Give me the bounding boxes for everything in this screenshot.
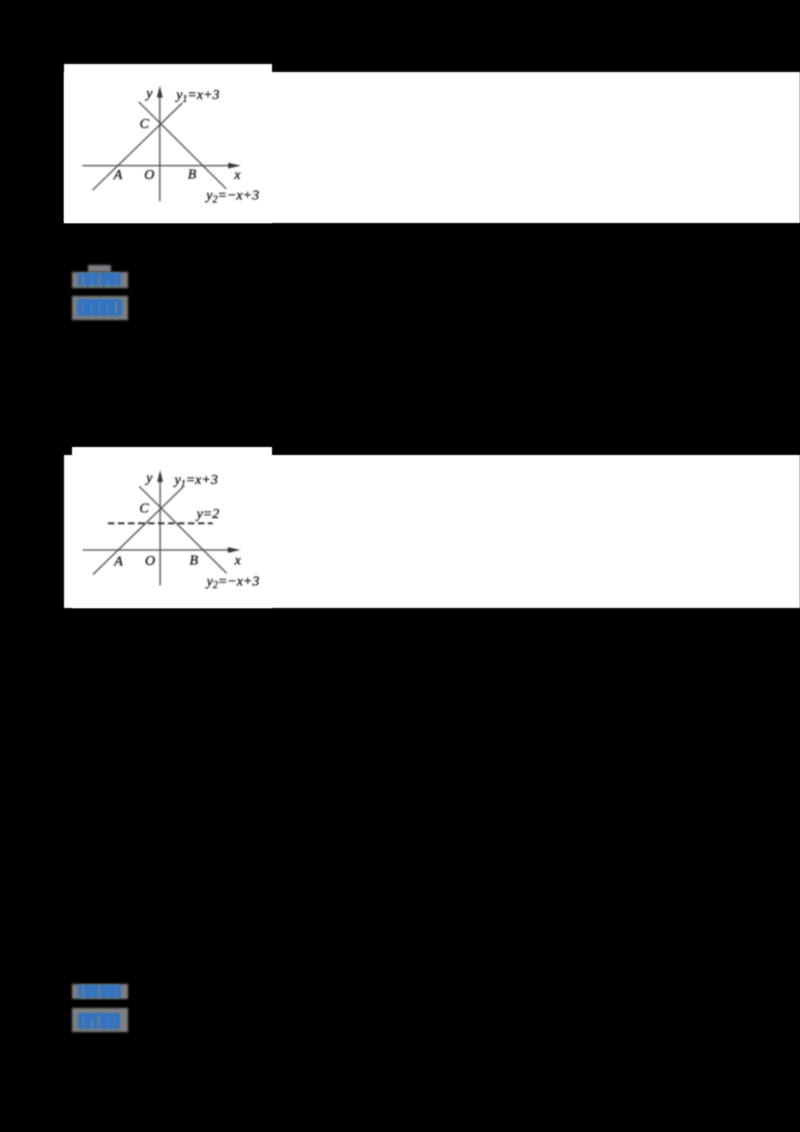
svg-text:x: x: [233, 168, 241, 183]
y-axis arrowhead (graph 2): [157, 470, 163, 482]
x-axis (graph 2): [83, 549, 233, 551]
svg-text:B: B: [188, 167, 197, 182]
svg-text:A: A: [113, 168, 123, 183]
analysis tag 4 gray box: [72, 1008, 128, 1032]
svg-text:y2=−x+3: y2=−x+3: [205, 574, 260, 591]
highlight bump above answer tag 1: [88, 265, 111, 272]
svg-text:B: B: [190, 554, 199, 569]
line y2=-x+3 (graph 2): [139, 486, 226, 573]
answer tag 3 blue text blob: [78, 985, 122, 998]
svg-text:y2=−x+3: y2=−x+3: [204, 189, 259, 206]
line y2=-x+3 (graph 1): [139, 102, 226, 189]
line y1=x+3 (graph 1): [93, 103, 183, 190]
analysis tag 2 blue text blob: [77, 299, 122, 315]
white band 1 image box: [64, 64, 272, 224]
svg-text:x: x: [234, 554, 242, 569]
x-axis arrowhead (graph 2): [228, 547, 241, 553]
analysis tag 2 gray box: [72, 296, 129, 320]
svg-text:y: y: [144, 471, 153, 486]
answer tag 1 gray box: [72, 272, 128, 288]
svg-text:O: O: [145, 554, 155, 569]
svg-text:A: A: [113, 555, 123, 570]
white band 2 image box: [72, 447, 273, 608]
graph 1: [63, 63, 273, 224]
answer tag 3 gray box: [72, 984, 128, 1000]
graph 2: [71, 447, 273, 608]
svg-text:y: y: [144, 86, 153, 101]
y-axis arrowhead (graph 1): [157, 86, 163, 98]
analysis tag 4 blue text blob: [78, 1013, 120, 1029]
svg-text:O: O: [144, 168, 154, 183]
dashed line y=2 (graph 2): [108, 522, 213, 524]
x-axis (graph 1): [82, 165, 233, 167]
svg-text:y1=x+3: y1=x+3: [173, 473, 218, 490]
white band 1 full-width row: [64, 72, 800, 224]
svg-text:C: C: [139, 501, 149, 516]
svg-text:y1=x+3: y1=x+3: [174, 88, 219, 105]
y-axis (graph 1): [159, 91, 161, 201]
answer tag 1 blue text blob: [78, 273, 122, 286]
x-axis arrowhead (graph 1): [228, 163, 241, 169]
white band 2 full-width row: [64, 455, 800, 607]
svg-text:y=2: y=2: [195, 507, 220, 522]
line y1=x+3 (graph 2): [93, 487, 183, 574]
svg-text:C: C: [140, 117, 150, 132]
y-axis (graph 2): [159, 476, 161, 586]
